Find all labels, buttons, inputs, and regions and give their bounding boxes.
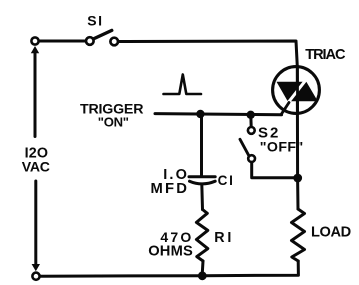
svg-text:"OFF": "OFF" [260,140,304,156]
svg-text:TRIAC: TRIAC [305,47,346,63]
junction trigger/S2 [247,111,255,119]
triac U1 [273,67,320,115]
svg-text:SI: SI [87,12,103,28]
wire R1 bottom to junction [201,261,205,273]
junction R1/bottom wire [198,271,207,280]
AC source lower wire with down arrow [32,181,40,271]
wire C1 branch down [200,114,203,177]
svg-text:CI: CI [218,173,235,188]
wire top-right (S1 to triac anode corner) [118,41,297,67]
wire trigger line [155,114,282,115]
switch S1 [86,30,118,45]
wire top-left (terminal to S1) [39,40,86,43]
AC source upper wire with up arrow [31,46,39,137]
svg-text:LOAD: LOAD [311,224,351,240]
resistor R1 [196,210,207,262]
capacitor C1 [189,177,215,210]
wire bottom (junction to bottom-left terminal) [40,274,202,278]
terminal bottom-left [32,273,39,280]
wire junction to LOAD top [296,178,299,209]
switch S2 [240,115,295,178]
junction S2/main vertical [293,174,302,183]
svg-text:OHMS: OHMS [148,244,193,260]
load resistor LOAD [292,209,305,261]
junction trigger/C1 [196,110,204,118]
svg-text:47O: 47O [160,229,193,245]
svg-text:"ON": "ON" [98,115,129,130]
terminal top-left [31,37,38,44]
wire triac main vertical (through circle to junction) [296,67,299,179]
gate wire [281,103,289,115]
svg-text:RI: RI [214,230,234,246]
svg-text:VAC: VAC [22,158,50,174]
svg-text:MFD: MFD [151,181,190,197]
wire LOAD bottom to corner [202,261,298,276]
trigger pulse waveform [164,75,202,95]
